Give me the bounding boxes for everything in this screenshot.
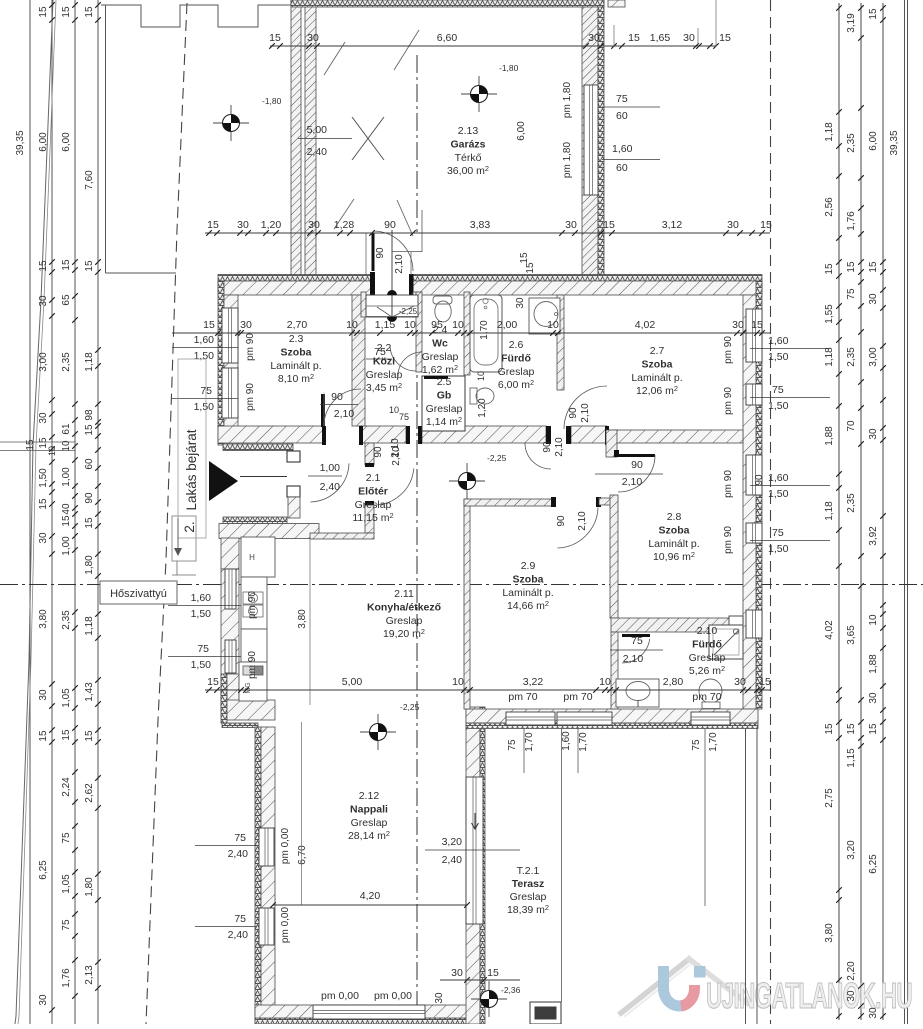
svg-text:6,00 m2: 6,00 m2 (498, 378, 534, 391)
svg-text:6,60: 6,60 (437, 32, 458, 44)
svg-text:75: 75 (772, 384, 784, 396)
svg-text:1,50: 1,50 (191, 608, 212, 620)
svg-text:30: 30 (38, 532, 49, 544)
svg-text:90: 90 (373, 446, 384, 458)
svg-text:Közl: Közl (373, 355, 395, 367)
svg-text:2,10: 2,10 (622, 476, 643, 488)
svg-text:1,60: 1,60 (768, 335, 789, 347)
svg-text:Greslap: Greslap (366, 369, 403, 381)
svg-text:3,20: 3,20 (442, 836, 463, 848)
svg-text:1,60: 1,60 (191, 592, 212, 604)
svg-text:2,10: 2,10 (394, 254, 405, 274)
svg-text:1,60: 1,60 (194, 334, 215, 346)
svg-text:1,70: 1,70 (479, 320, 490, 340)
svg-text:30: 30 (38, 689, 49, 701)
svg-text:3,12: 3,12 (662, 219, 683, 231)
svg-text:2,40: 2,40 (320, 481, 341, 493)
svg-text:1,50: 1,50 (768, 488, 789, 500)
svg-text:T.2.1: T.2.1 (517, 865, 540, 877)
svg-text:15: 15 (84, 730, 95, 742)
svg-text:30: 30 (38, 994, 49, 1006)
svg-text:2,70: 2,70 (287, 319, 308, 331)
svg-text:3,45 m2: 3,45 m2 (366, 381, 402, 394)
svg-text:75: 75 (234, 832, 246, 844)
svg-text:1,20: 1,20 (477, 398, 488, 418)
svg-text:pm 0,00: pm 0,00 (280, 827, 291, 864)
svg-text:15: 15 (61, 6, 72, 18)
svg-text:Hőszivattyú: Hőszivattyú (110, 588, 167, 600)
svg-text:15: 15 (38, 6, 49, 18)
svg-text:-2,36: -2,36 (501, 985, 521, 995)
svg-text:90: 90 (556, 515, 567, 527)
svg-text:30: 30 (451, 967, 463, 979)
svg-text:15: 15 (84, 260, 95, 272)
svg-text:2.9: 2.9 (521, 560, 536, 572)
svg-text:pm 0,00: pm 0,00 (321, 990, 359, 1002)
svg-text:Előtér: Előtér (358, 485, 388, 497)
svg-text:75: 75 (507, 739, 518, 751)
svg-text:15: 15 (61, 729, 72, 741)
svg-text:Fürdő: Fürdő (692, 638, 722, 650)
svg-text:39,35: 39,35 (889, 130, 900, 155)
svg-text:10: 10 (599, 676, 611, 688)
svg-text:30: 30 (588, 32, 600, 44)
svg-text:7,60: 7,60 (84, 170, 95, 190)
svg-text:1,70: 1,70 (578, 732, 589, 752)
svg-text:Szoba: Szoba (281, 346, 312, 358)
svg-text:2,35: 2,35 (61, 610, 72, 630)
svg-text:2.3: 2.3 (289, 333, 304, 345)
svg-text:1,05: 1,05 (61, 688, 72, 708)
svg-text:Laminált p.: Laminált p. (270, 360, 321, 372)
svg-text:Gb: Gb (437, 389, 452, 401)
svg-text:30: 30 (727, 219, 739, 231)
svg-text:30: 30 (38, 295, 49, 307)
svg-text:2,40: 2,40 (228, 929, 249, 941)
svg-text:2.7: 2.7 (650, 345, 665, 357)
svg-text:Wc: Wc (432, 337, 448, 349)
svg-text:10: 10 (547, 319, 559, 331)
svg-text:6,00: 6,00 (868, 131, 879, 151)
svg-text:30: 30 (434, 992, 445, 1004)
svg-text:1,76: 1,76 (61, 968, 72, 988)
svg-text:2.8: 2.8 (667, 511, 682, 523)
svg-text:19,20 m2: 19,20 m2 (383, 627, 425, 640)
svg-text:1,65: 1,65 (650, 32, 671, 44)
svg-text:15: 15 (628, 32, 640, 44)
svg-text:Nappali: Nappali (350, 803, 388, 815)
svg-text:2.13: 2.13 (458, 125, 479, 137)
svg-text:2,56: 2,56 (824, 197, 835, 217)
svg-text:1,62 m2: 1,62 m2 (422, 363, 458, 376)
svg-text:pm 90: pm 90 (723, 336, 734, 364)
svg-text:15: 15 (203, 319, 215, 331)
svg-text:2,10: 2,10 (334, 408, 355, 420)
svg-text:pm 90: pm 90 (247, 651, 258, 679)
svg-text:10: 10 (476, 371, 486, 381)
svg-text:2,10: 2,10 (580, 403, 591, 423)
svg-text:1,80: 1,80 (84, 555, 95, 575)
svg-text:Garázs: Garázs (450, 138, 485, 150)
svg-text:15: 15 (207, 676, 219, 688)
svg-text:2,35: 2,35 (846, 493, 857, 513)
svg-text:2,40: 2,40 (307, 146, 328, 158)
svg-text:1,43: 1,43 (84, 682, 95, 702)
svg-text:90: 90 (331, 391, 343, 403)
svg-text:30: 30 (732, 319, 744, 331)
svg-text:30: 30 (307, 32, 319, 44)
svg-text:Greslap: Greslap (426, 403, 463, 415)
svg-text:28,14 m2: 28,14 m2 (348, 829, 390, 842)
svg-text:15: 15 (868, 8, 879, 20)
svg-text:30: 30 (308, 219, 320, 231)
svg-text:3,19: 3,19 (846, 13, 857, 33)
svg-text:Konyha/étkező: Konyha/étkező (367, 601, 441, 613)
svg-text:2,10: 2,10 (577, 511, 588, 531)
svg-text:2,20: 2,20 (846, 961, 857, 981)
svg-text:4,02: 4,02 (824, 620, 835, 640)
svg-text:Terasz: Terasz (512, 878, 545, 890)
svg-text:Laminált p.: Laminált p. (648, 538, 699, 550)
svg-text:3,80: 3,80 (824, 923, 835, 943)
svg-text:3,20: 3,20 (846, 840, 857, 860)
svg-text:30: 30 (515, 297, 526, 309)
svg-text:1,50: 1,50 (768, 543, 789, 555)
svg-text:H: H (249, 553, 255, 562)
svg-text:6,00: 6,00 (61, 132, 72, 152)
svg-text:1,50: 1,50 (768, 351, 789, 363)
svg-text:pm 90: pm 90 (245, 333, 256, 361)
svg-text:2.2: 2.2 (377, 342, 392, 354)
svg-text:1,60: 1,60 (612, 143, 633, 155)
svg-text:pm 70: pm 70 (692, 691, 721, 703)
svg-text:4,20: 4,20 (360, 890, 381, 902)
svg-text:1,70: 1,70 (708, 732, 719, 752)
svg-text:15: 15 (84, 517, 95, 529)
svg-text:30: 30 (734, 676, 746, 688)
svg-text:2,10: 2,10 (390, 438, 401, 458)
svg-text:1,15: 1,15 (846, 748, 857, 768)
svg-text:75: 75 (846, 288, 857, 300)
svg-text:8,10 m2: 8,10 m2 (278, 372, 314, 385)
svg-text:15: 15 (25, 439, 36, 451)
svg-text:2,40: 2,40 (442, 854, 463, 866)
svg-text:75: 75 (197, 643, 209, 655)
svg-text:75: 75 (61, 919, 72, 931)
svg-text:39,35: 39,35 (15, 130, 26, 155)
svg-text:1,50: 1,50 (194, 401, 215, 413)
svg-text:Térkő: Térkő (455, 152, 482, 164)
svg-text:pm 90: pm 90 (247, 591, 258, 619)
svg-text:10: 10 (47, 446, 57, 456)
svg-text:98: 98 (84, 409, 95, 421)
svg-text:6,70: 6,70 (297, 845, 308, 865)
svg-text:2.1: 2.1 (366, 472, 381, 484)
svg-text:1,76: 1,76 (846, 211, 857, 231)
svg-text:1,50: 1,50 (191, 659, 212, 671)
svg-text:Greslap: Greslap (422, 351, 459, 363)
svg-text:2,24: 2,24 (61, 777, 72, 797)
svg-text:Greslap: Greslap (355, 499, 392, 511)
svg-text:15: 15 (38, 260, 49, 272)
svg-text:15: 15 (868, 261, 879, 273)
svg-text:60: 60 (84, 458, 95, 470)
svg-text:75: 75 (61, 832, 72, 844)
svg-text:75: 75 (691, 739, 702, 751)
svg-text:1,80: 1,80 (84, 877, 95, 897)
svg-text:1,18: 1,18 (824, 122, 835, 142)
svg-text:65: 65 (61, 294, 72, 306)
svg-text:18,39 m2: 18,39 m2 (507, 903, 549, 916)
svg-text:Szoba: Szoba (659, 524, 690, 536)
svg-text:1,18: 1,18 (84, 616, 95, 636)
svg-text:2,00: 2,00 (497, 319, 518, 331)
svg-text:12,06 m2: 12,06 m2 (636, 384, 678, 397)
svg-text:30: 30 (868, 293, 879, 305)
svg-text:15: 15 (525, 262, 536, 274)
svg-text:Laminált p.: Laminált p. (631, 372, 682, 384)
svg-text:pm 90: pm 90 (245, 383, 256, 411)
svg-text:90: 90 (542, 441, 553, 453)
svg-text:Greslap: Greslap (689, 652, 726, 664)
svg-text:2,35: 2,35 (846, 347, 857, 367)
svg-text:15: 15 (84, 424, 95, 436)
svg-text:-2,25: -2,25 (400, 702, 420, 712)
svg-text:UJINGATLANOK.HU: UJINGATLANOK.HU (706, 975, 912, 1016)
svg-text:pm 90: pm 90 (723, 387, 734, 415)
svg-text:15: 15 (61, 515, 72, 527)
svg-text:1,60: 1,60 (768, 472, 789, 484)
svg-text:3,80: 3,80 (38, 609, 49, 629)
svg-text:15: 15 (603, 219, 615, 231)
svg-text:1,00: 1,00 (61, 467, 72, 487)
svg-text:75: 75 (234, 913, 246, 925)
svg-text:pm 90: pm 90 (723, 526, 734, 554)
svg-text:30: 30 (868, 692, 879, 704)
svg-text:10: 10 (404, 319, 416, 331)
svg-text:5,00: 5,00 (342, 676, 363, 688)
svg-text:2.: 2. (182, 521, 197, 532)
svg-text:10: 10 (389, 405, 399, 415)
svg-text:1,50: 1,50 (38, 468, 49, 488)
svg-text:15: 15 (519, 252, 530, 264)
svg-text:2,13: 2,13 (84, 965, 95, 985)
svg-text:90: 90 (384, 219, 396, 231)
svg-text:10: 10 (452, 676, 464, 688)
svg-text:90: 90 (754, 474, 765, 486)
svg-text:90: 90 (568, 407, 579, 419)
svg-text:15: 15 (719, 32, 731, 44)
svg-text:30: 30 (868, 1007, 879, 1019)
svg-text:2,35: 2,35 (846, 133, 857, 153)
svg-text:-1,80: -1,80 (262, 96, 282, 106)
svg-text:Lakás bejárat: Lakás bejárat (184, 429, 199, 510)
svg-text:1,18: 1,18 (84, 352, 95, 372)
svg-text:15: 15 (61, 259, 72, 271)
svg-text:2.12: 2.12 (359, 790, 380, 802)
svg-text:pm 0,00: pm 0,00 (374, 990, 412, 1002)
svg-text:6,00: 6,00 (38, 132, 49, 152)
svg-text:1,60: 1,60 (561, 731, 572, 751)
svg-text:2,75: 2,75 (824, 788, 835, 808)
svg-text:2,62: 2,62 (84, 783, 95, 803)
svg-text:15: 15 (38, 498, 49, 510)
svg-text:5,00: 5,00 (307, 124, 328, 136)
svg-text:36,00 m2: 36,00 m2 (447, 164, 489, 177)
svg-text:6,00: 6,00 (516, 121, 527, 141)
svg-text:3,00: 3,00 (868, 347, 879, 367)
svg-text:-2,25: -2,25 (487, 453, 507, 463)
svg-text:75: 75 (399, 412, 409, 422)
svg-text:1,00: 1,00 (61, 536, 72, 556)
svg-text:10: 10 (868, 614, 879, 626)
svg-text:2,80: 2,80 (663, 676, 684, 688)
svg-text:-2,25: -2,25 (399, 307, 418, 316)
svg-text:10: 10 (452, 319, 464, 331)
svg-text:Szoba: Szoba (642, 358, 673, 370)
svg-text:1,14 m2: 1,14 m2 (426, 415, 462, 428)
svg-text:15: 15 (846, 261, 857, 273)
svg-text:1,15: 1,15 (375, 319, 396, 331)
svg-text:90: 90 (631, 459, 643, 471)
svg-text:pm 70: pm 70 (563, 691, 592, 703)
svg-text:Greslap: Greslap (386, 615, 423, 627)
svg-text:70: 70 (846, 420, 857, 432)
svg-text:Greslap: Greslap (351, 817, 388, 829)
svg-text:15: 15 (846, 723, 857, 735)
svg-text:15: 15 (207, 219, 219, 231)
svg-text:Greslap: Greslap (498, 366, 535, 378)
svg-text:30: 30 (38, 412, 49, 424)
svg-text:2,40: 2,40 (228, 848, 249, 860)
svg-text:2,10: 2,10 (623, 653, 644, 665)
svg-text:60: 60 (616, 110, 628, 122)
svg-text:Szoba: Szoba (513, 573, 544, 585)
svg-text:6,25: 6,25 (868, 854, 879, 874)
svg-text:90: 90 (84, 492, 95, 504)
svg-text:pm 90: pm 90 (723, 470, 734, 498)
svg-text:4,02: 4,02 (635, 319, 656, 331)
svg-text:1,50: 1,50 (194, 350, 215, 362)
svg-text:1,88: 1,88 (868, 654, 879, 674)
svg-text:15: 15 (487, 967, 499, 979)
svg-text:2,35: 2,35 (61, 352, 72, 372)
svg-text:pm 0,00: pm 0,00 (280, 906, 291, 943)
svg-text:75: 75 (772, 527, 784, 539)
svg-text:60: 60 (616, 162, 628, 174)
svg-text:1,18: 1,18 (824, 501, 835, 521)
svg-text:30: 30 (868, 428, 879, 440)
svg-text:30: 30 (240, 319, 252, 331)
svg-text:15: 15 (269, 32, 281, 44)
svg-text:30: 30 (237, 219, 249, 231)
svg-text:1,55: 1,55 (824, 304, 835, 324)
svg-text:30: 30 (565, 219, 577, 231)
svg-text:1,70: 1,70 (524, 732, 535, 752)
svg-text:61: 61 (61, 423, 72, 435)
svg-text:3,65: 3,65 (846, 625, 857, 645)
svg-text:1,50: 1,50 (768, 400, 789, 412)
svg-text:pm 70: pm 70 (508, 691, 537, 703)
svg-text:3,80: 3,80 (297, 609, 308, 629)
svg-text:3,00: 3,00 (38, 352, 49, 372)
svg-text:1,20: 1,20 (261, 219, 282, 231)
svg-text:pm 1,80: pm 1,80 (562, 141, 573, 178)
svg-text:10,96 m2: 10,96 m2 (653, 550, 695, 563)
svg-text:15: 15 (751, 319, 763, 331)
svg-text:10: 10 (346, 319, 358, 331)
svg-text:2.5: 2.5 (437, 376, 452, 388)
svg-text:1,18: 1,18 (824, 347, 835, 367)
svg-text:15: 15 (38, 730, 49, 742)
svg-text:Greslap: Greslap (510, 891, 547, 903)
svg-text:Fürdő: Fürdő (501, 352, 531, 364)
svg-text:2.10: 2.10 (697, 625, 718, 637)
svg-text:2.11: 2.11 (394, 588, 414, 600)
svg-text:30: 30 (683, 32, 695, 44)
svg-text:3,92: 3,92 (868, 526, 879, 546)
svg-text:30: 30 (846, 990, 857, 1002)
svg-text:11,15 m2: 11,15 m2 (352, 511, 393, 524)
svg-text:14,66 m2: 14,66 m2 (507, 599, 549, 612)
svg-text:75: 75 (631, 635, 643, 647)
svg-text:3,22: 3,22 (523, 676, 544, 688)
svg-text:2,10: 2,10 (554, 437, 565, 457)
svg-text:15: 15 (759, 676, 771, 688)
svg-text:3,83: 3,83 (470, 219, 491, 231)
svg-text:2.4: 2.4 (433, 324, 448, 336)
svg-text:-1,80: -1,80 (499, 63, 519, 73)
svg-text:pm 1,80: pm 1,80 (562, 81, 573, 118)
svg-text:15: 15 (760, 219, 772, 231)
svg-text:1,05: 1,05 (61, 874, 72, 894)
svg-text:40: 40 (61, 503, 72, 515)
svg-text:15: 15 (824, 723, 835, 735)
svg-text:2.6: 2.6 (509, 339, 524, 351)
svg-text:75: 75 (616, 93, 628, 105)
svg-text:5,26 m2: 5,26 m2 (689, 664, 725, 677)
svg-text:1,28: 1,28 (334, 219, 355, 231)
svg-text:1,88: 1,88 (824, 426, 835, 446)
svg-text:Laminált p.: Laminált p. (502, 587, 553, 599)
svg-text:90: 90 (375, 247, 386, 259)
svg-text:1,00: 1,00 (320, 462, 341, 474)
svg-text:15: 15 (84, 6, 95, 18)
svg-text:15: 15 (824, 263, 835, 275)
svg-text:6,25: 6,25 (38, 860, 49, 880)
svg-text:15: 15 (868, 723, 879, 735)
